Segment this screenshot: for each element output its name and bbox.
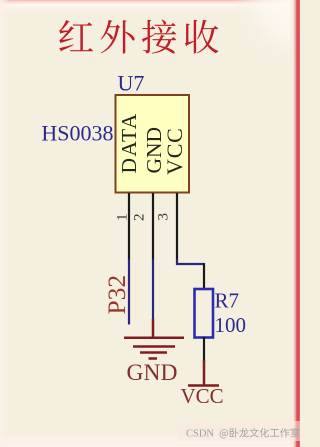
ground symbol	[124, 319, 184, 359]
wire net P32	[128, 259, 130, 325]
svg-text:100: 100	[215, 313, 247, 337]
title 红外接收	[59, 20, 218, 54]
svg-text:GND: GND	[127, 360, 178, 386]
svg-text:VCC: VCC	[162, 127, 187, 175]
resistor R7 bottom pin	[203, 337, 205, 362]
svg-text:3: 3	[156, 213, 172, 221]
wire VCC net (L-shape from pin 3 to resistor)	[177, 259, 204, 264]
pin 3	[176, 193, 178, 260]
resistor R7 top pin	[203, 263, 205, 290]
watermark CSDN	[186, 428, 299, 440]
svg-text:CSDN: CSDN	[186, 429, 214, 440]
svg-text:VCC: VCC	[181, 384, 224, 408]
svg-text:1: 1	[115, 214, 131, 222]
svg-text:DATA: DATA	[117, 112, 141, 173]
svg-text:2: 2	[132, 214, 148, 222]
IC U7 body	[116, 95, 190, 193]
svg-text:R7: R7	[215, 289, 240, 313]
pin 2	[152, 193, 154, 260]
resistor R7 body	[195, 289, 214, 338]
svg-text:U7: U7	[118, 71, 145, 96]
VCC power symbol	[188, 360, 219, 386]
wire to ground	[152, 259, 154, 321]
svg-text:P32: P32	[102, 275, 131, 315]
svg-text:HS0038: HS0038	[41, 121, 113, 146]
pin 1	[128, 193, 130, 260]
